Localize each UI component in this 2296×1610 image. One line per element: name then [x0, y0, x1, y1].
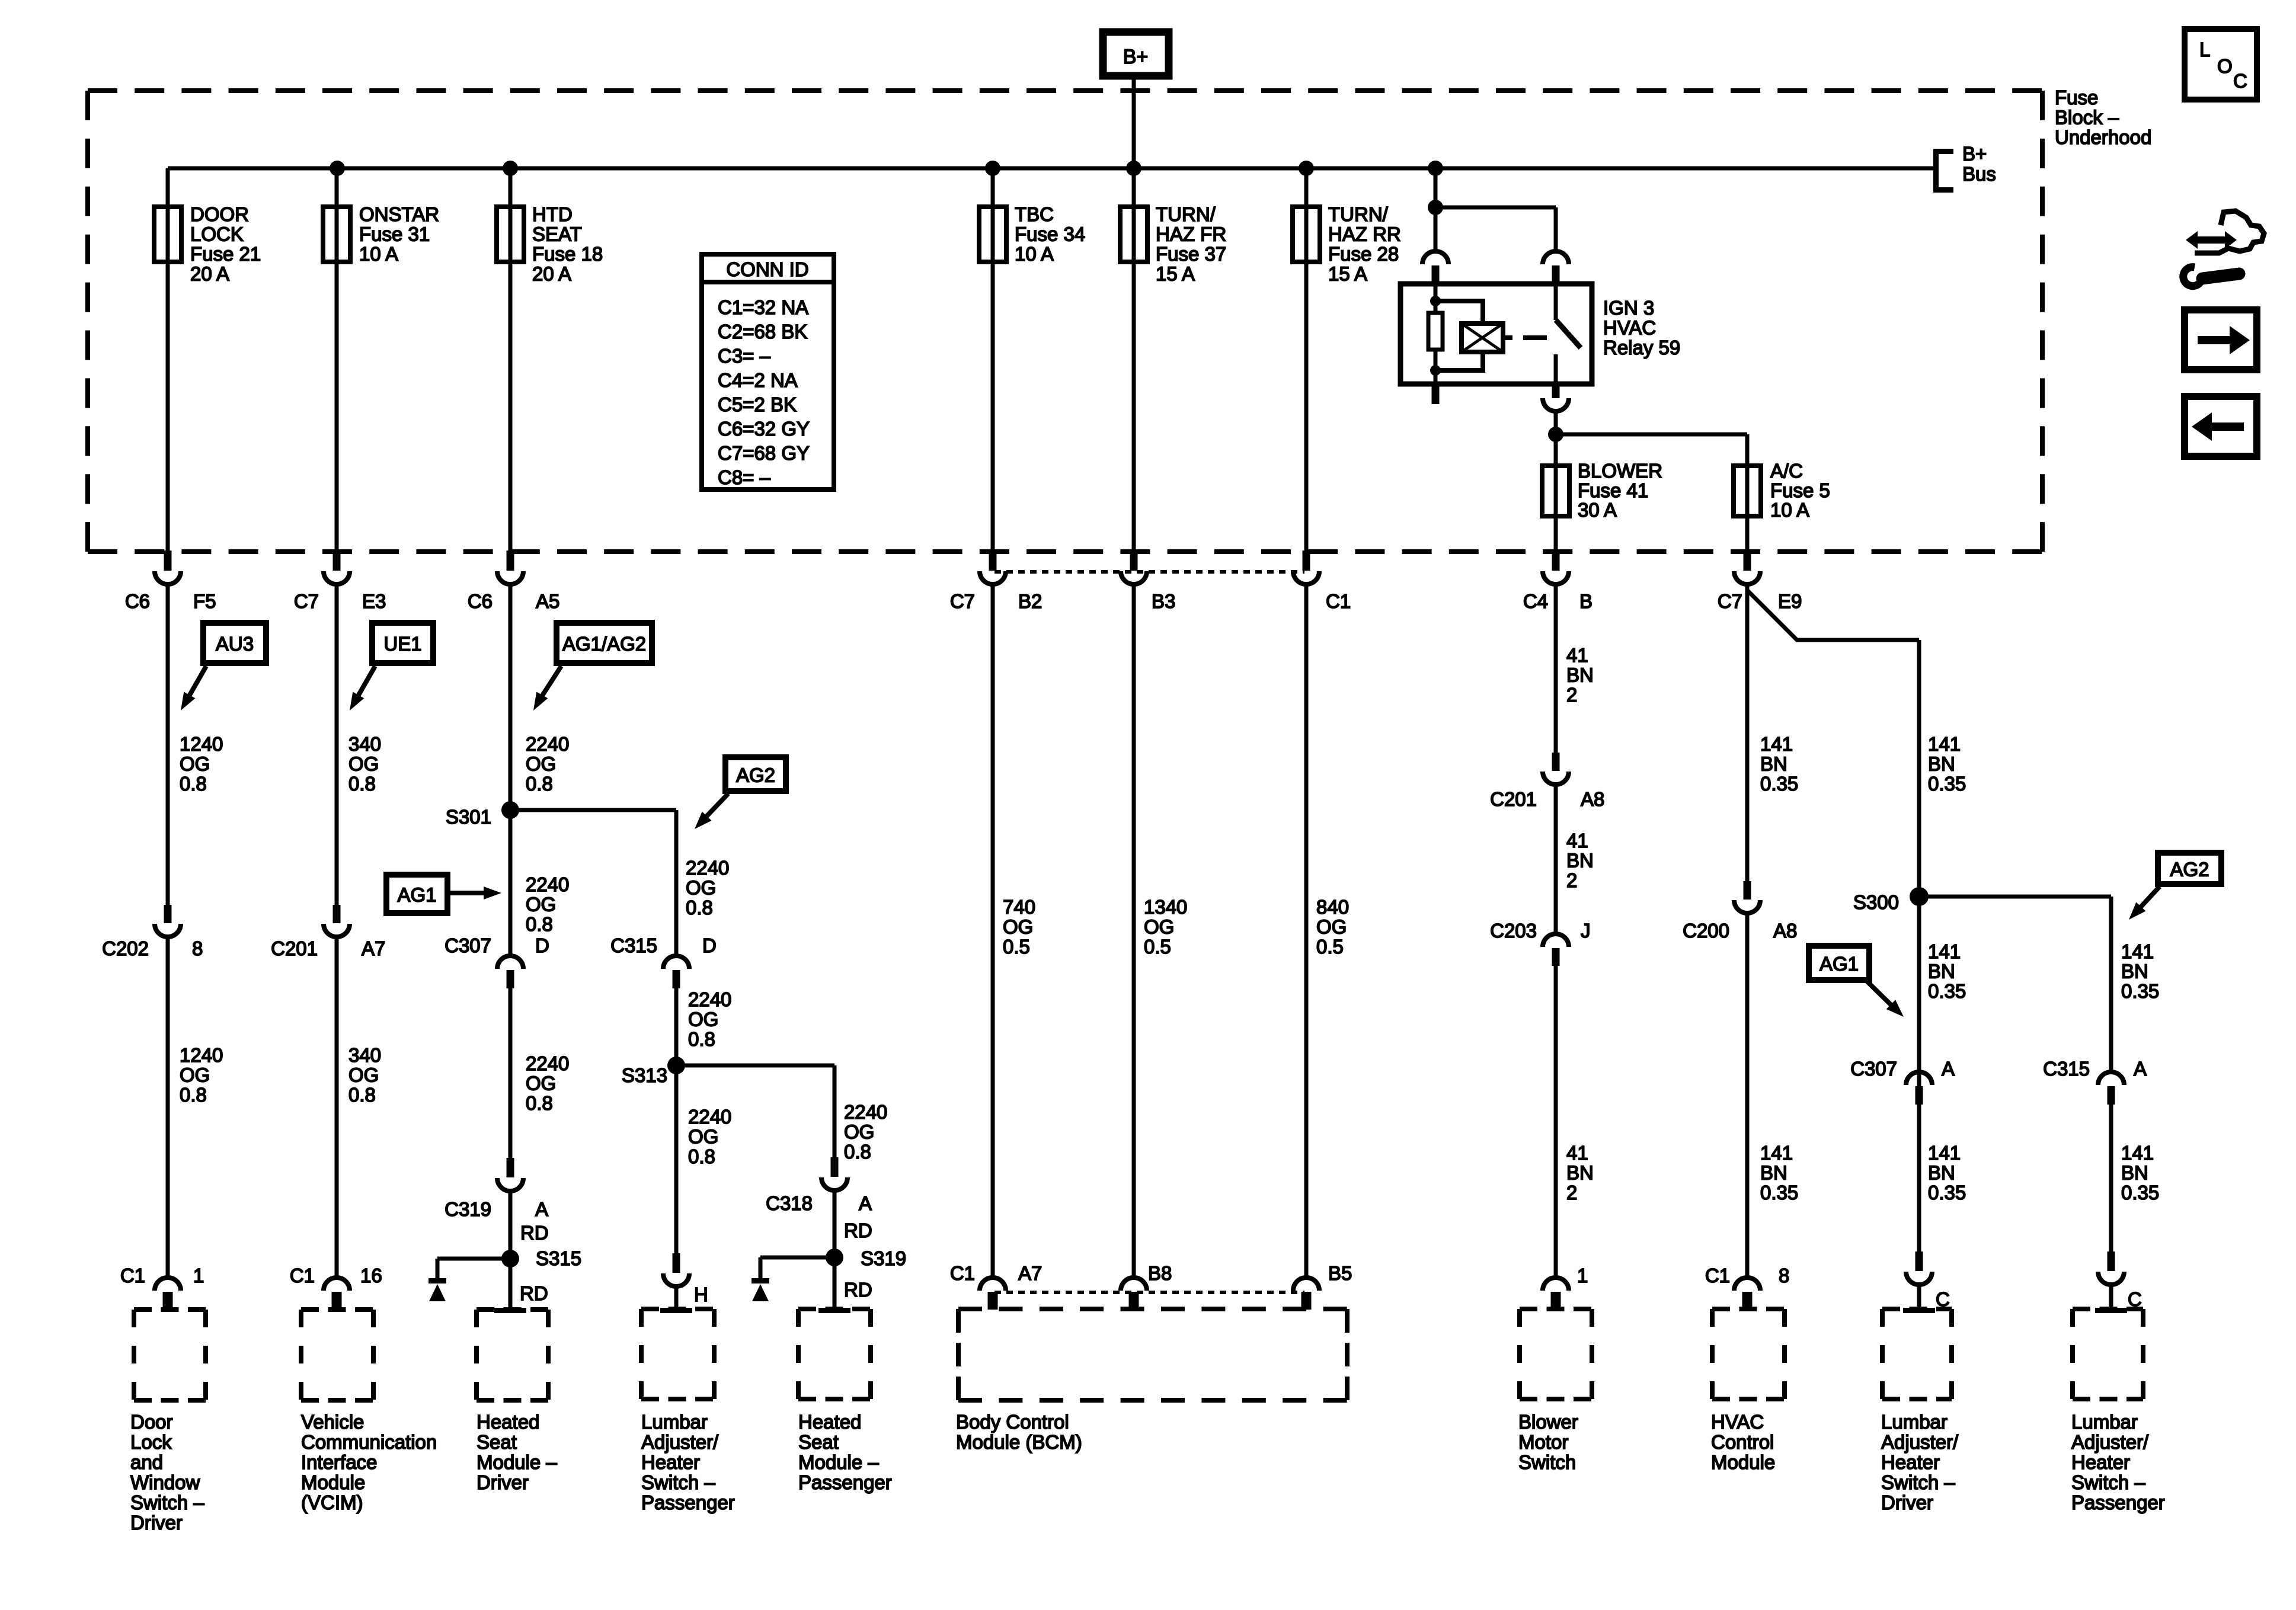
svg-text:C7: C7 — [294, 590, 319, 612]
svg-text:A: A — [2134, 1058, 2147, 1080]
svg-text:HAZ RR: HAZ RR — [1328, 223, 1401, 245]
svg-text:0.35: 0.35 — [1760, 1182, 1798, 1204]
svg-text:Module: Module — [301, 1471, 365, 1493]
svg-text:S301: S301 — [446, 806, 491, 828]
svg-text:Heater: Heater — [2071, 1451, 2130, 1473]
svg-text:BN: BN — [1760, 1162, 1787, 1184]
svg-text:C1: C1 — [290, 1265, 315, 1286]
svg-text:Fuse: Fuse — [2055, 87, 2098, 108]
svg-text:Fuse 41: Fuse 41 — [1578, 479, 1648, 501]
svg-text:Passenger: Passenger — [798, 1471, 892, 1493]
svg-text:IGN 3: IGN 3 — [1603, 297, 1654, 319]
svg-text:C307: C307 — [1850, 1058, 1897, 1080]
svg-text:Lumbar: Lumbar — [641, 1411, 708, 1433]
svg-text:30 A: 30 A — [1578, 499, 1617, 521]
svg-text:A5: A5 — [536, 590, 559, 612]
svg-text:A8: A8 — [1773, 920, 1797, 942]
svg-text:C7=68 GY: C7=68 GY — [718, 442, 810, 464]
svg-text:Window: Window — [130, 1471, 200, 1493]
svg-text:141: 141 — [1928, 1142, 1961, 1164]
svg-text:C1: C1 — [1326, 590, 1351, 612]
svg-text:C7: C7 — [950, 590, 975, 612]
svg-text:2240: 2240 — [526, 733, 569, 755]
svg-text:C8= –: C8= – — [718, 466, 771, 488]
svg-text:BN: BN — [2121, 961, 2148, 982]
svg-text:B2: B2 — [1018, 590, 1042, 612]
svg-text:41: 41 — [1566, 830, 1588, 852]
svg-text:OG: OG — [1003, 916, 1033, 938]
svg-text:RD: RD — [844, 1219, 872, 1241]
svg-text:C307: C307 — [445, 934, 491, 956]
svg-text:141: 141 — [2121, 1142, 2154, 1164]
svg-text:1340: 1340 — [1144, 896, 1187, 918]
svg-text:B8: B8 — [1148, 1262, 1172, 1284]
svg-text:0.8: 0.8 — [526, 1092, 553, 1114]
svg-text:BN: BN — [1760, 753, 1787, 775]
svg-text:E3: E3 — [362, 590, 386, 612]
svg-text:0.5: 0.5 — [1003, 936, 1030, 958]
svg-text:A7: A7 — [362, 937, 385, 959]
svg-text:Passenger: Passenger — [641, 1491, 735, 1513]
svg-text:2240: 2240 — [688, 988, 731, 1010]
svg-text:Module (BCM): Module (BCM) — [956, 1431, 1082, 1453]
svg-text:C7: C7 — [1718, 590, 1742, 612]
svg-text:Fuse 18: Fuse 18 — [532, 243, 603, 265]
svg-text:Adjuster/: Adjuster/ — [641, 1431, 719, 1453]
svg-text:2: 2 — [1566, 869, 1577, 891]
svg-text:Module: Module — [1711, 1451, 1775, 1473]
svg-text:10 A: 10 A — [1770, 499, 1809, 521]
svg-text:Control: Control — [1711, 1431, 1774, 1453]
svg-text:C202: C202 — [102, 937, 149, 959]
svg-text:AG1/AG2: AG1/AG2 — [562, 633, 646, 655]
svg-text:F5: F5 — [193, 590, 216, 612]
svg-text:SEAT: SEAT — [532, 223, 582, 245]
svg-text:C319: C319 — [445, 1198, 491, 1220]
svg-text:10 A: 10 A — [1015, 243, 1054, 265]
svg-text:20 A: 20 A — [532, 263, 571, 285]
svg-text:BN: BN — [1566, 1162, 1594, 1184]
svg-text:Motor: Motor — [1518, 1431, 1568, 1453]
svg-text:340: 340 — [348, 733, 381, 755]
svg-text:B+: B+ — [1123, 46, 1149, 68]
svg-text:OG: OG — [688, 1009, 718, 1030]
svg-text:C: C — [2233, 70, 2247, 92]
svg-text:Communication: Communication — [301, 1431, 437, 1453]
svg-text:Relay 59: Relay 59 — [1603, 337, 1680, 359]
svg-text:Adjuster/: Adjuster/ — [1881, 1431, 1959, 1453]
svg-text:UE1: UE1 — [383, 633, 421, 655]
svg-text:Block –: Block – — [2055, 107, 2119, 129]
svg-text:C4: C4 — [1523, 590, 1548, 612]
svg-text:Fuse 5: Fuse 5 — [1770, 479, 1830, 501]
svg-text:C6: C6 — [125, 590, 150, 612]
svg-text:41: 41 — [1566, 1142, 1588, 1164]
svg-text:BLOWER: BLOWER — [1578, 460, 1662, 482]
svg-text:S315: S315 — [536, 1247, 581, 1269]
svg-text:0.35: 0.35 — [1760, 773, 1798, 795]
svg-text:Switch –: Switch – — [1881, 1471, 1955, 1493]
svg-text:C315: C315 — [610, 934, 657, 956]
svg-text:C1: C1 — [120, 1265, 145, 1286]
svg-text:H: H — [694, 1283, 708, 1305]
svg-text:C4=2 NA: C4=2 NA — [718, 369, 798, 391]
svg-text:C201: C201 — [271, 937, 318, 959]
svg-text:Heater: Heater — [641, 1451, 700, 1473]
svg-text:Fuse 37: Fuse 37 — [1156, 243, 1226, 265]
svg-text:Body Control: Body Control — [956, 1411, 1069, 1433]
svg-text:Driver: Driver — [130, 1512, 183, 1534]
svg-text:RD: RD — [844, 1279, 872, 1301]
svg-text:Lumbar: Lumbar — [1881, 1411, 1948, 1433]
svg-text:S313: S313 — [622, 1064, 667, 1086]
svg-text:B+: B+ — [1962, 143, 1987, 165]
svg-text:OG: OG — [1144, 916, 1174, 938]
svg-text:141: 141 — [1928, 733, 1961, 755]
svg-text:Fuse 21: Fuse 21 — [190, 243, 261, 265]
svg-text:Interface: Interface — [301, 1451, 377, 1473]
svg-text:OG: OG — [526, 894, 556, 916]
svg-text:1240: 1240 — [180, 1044, 223, 1066]
svg-text:1240: 1240 — [180, 733, 223, 755]
svg-text:OG: OG — [180, 753, 210, 775]
svg-text:Blower: Blower — [1518, 1411, 1578, 1433]
svg-text:740: 740 — [1003, 896, 1035, 918]
svg-text:B5: B5 — [1328, 1262, 1352, 1284]
svg-text:Seat: Seat — [477, 1431, 517, 1453]
svg-text:(VCIM): (VCIM) — [301, 1491, 363, 1513]
svg-text:1: 1 — [193, 1265, 204, 1286]
svg-text:OG: OG — [686, 877, 716, 899]
svg-text:0.8: 0.8 — [348, 773, 376, 795]
svg-text:Heater: Heater — [1881, 1451, 1940, 1473]
svg-text:B: B — [1579, 590, 1593, 612]
svg-text:Seat: Seat — [798, 1431, 839, 1453]
svg-text:141: 141 — [1760, 733, 1793, 755]
svg-text:Heated: Heated — [477, 1411, 539, 1433]
svg-text:A8: A8 — [1581, 788, 1604, 810]
svg-text:HTD: HTD — [532, 203, 573, 225]
svg-text:HAZ FR: HAZ FR — [1156, 223, 1226, 245]
svg-text:AG1: AG1 — [1819, 953, 1859, 975]
svg-text:2: 2 — [1566, 1182, 1577, 1204]
svg-text:B3: B3 — [1152, 590, 1175, 612]
svg-text:0.35: 0.35 — [2121, 980, 2159, 1002]
svg-text:AU3: AU3 — [216, 633, 254, 655]
svg-text:D: D — [535, 934, 549, 956]
svg-text:Switch –: Switch – — [641, 1471, 715, 1493]
svg-text:8: 8 — [1779, 1265, 1789, 1286]
svg-text:Fuse 34: Fuse 34 — [1015, 223, 1085, 245]
svg-text:RD: RD — [520, 1222, 549, 1244]
svg-text:C3= –: C3= – — [718, 345, 771, 367]
svg-text:A/C: A/C — [1770, 460, 1803, 482]
svg-text:AG2: AG2 — [736, 764, 775, 786]
svg-text:J: J — [1581, 920, 1591, 942]
svg-text:0.8: 0.8 — [526, 913, 553, 935]
svg-text:Switch: Switch — [1518, 1451, 1576, 1473]
svg-text:TURN/: TURN/ — [1156, 203, 1216, 225]
svg-text:C201: C201 — [1490, 788, 1537, 810]
svg-text:0.8: 0.8 — [180, 773, 207, 795]
svg-text:0.35: 0.35 — [1928, 773, 1966, 795]
svg-text:1: 1 — [1577, 1265, 1588, 1286]
svg-text:A: A — [859, 1192, 872, 1214]
svg-text:BN: BN — [2121, 1162, 2148, 1184]
svg-text:0.35: 0.35 — [1928, 1182, 1966, 1204]
svg-text:LOCK: LOCK — [190, 223, 244, 245]
svg-text:C6: C6 — [468, 590, 493, 612]
svg-text:Driver: Driver — [1881, 1491, 1933, 1513]
svg-text:HVAC: HVAC — [1603, 317, 1656, 339]
svg-text:OG: OG — [844, 1121, 874, 1143]
svg-text:A: A — [1942, 1058, 1955, 1080]
svg-text:Driver: Driver — [477, 1471, 529, 1493]
svg-text:BN: BN — [1566, 850, 1594, 872]
svg-text:Lock: Lock — [130, 1431, 172, 1453]
svg-text:C6=32 GY: C6=32 GY — [718, 418, 810, 440]
svg-text:CONN ID: CONN ID — [726, 258, 808, 280]
svg-text:S300: S300 — [1853, 891, 1899, 913]
svg-text:C315: C315 — [2043, 1058, 2090, 1080]
svg-text:E9: E9 — [1778, 590, 1802, 612]
svg-text:Fuse 31: Fuse 31 — [359, 223, 430, 245]
svg-text:and: and — [130, 1451, 163, 1473]
svg-text:Lumbar: Lumbar — [2071, 1411, 2138, 1433]
svg-text:0.8: 0.8 — [844, 1141, 871, 1163]
svg-text:16: 16 — [360, 1265, 382, 1286]
svg-text:Adjuster/: Adjuster/ — [2071, 1431, 2149, 1453]
svg-text:141: 141 — [2121, 940, 2154, 962]
svg-text:Vehicle: Vehicle — [301, 1411, 364, 1433]
svg-text:2240: 2240 — [688, 1106, 731, 1128]
svg-text:BN: BN — [1566, 664, 1594, 686]
svg-text:0.35: 0.35 — [1928, 980, 1966, 1002]
svg-text:AG2: AG2 — [2170, 859, 2209, 881]
svg-text:TBC: TBC — [1015, 203, 1054, 225]
svg-text:HVAC: HVAC — [1711, 1411, 1764, 1433]
svg-text:15 A: 15 A — [1328, 263, 1367, 285]
svg-text:A: A — [535, 1198, 548, 1220]
svg-text:2240: 2240 — [526, 873, 569, 895]
svg-text:10 A: 10 A — [359, 243, 398, 265]
svg-text:TURN/: TURN/ — [1328, 203, 1389, 225]
svg-text:0.8: 0.8 — [348, 1084, 376, 1106]
svg-text:RD: RD — [520, 1282, 548, 1304]
svg-text:Module –: Module – — [798, 1451, 879, 1473]
svg-text:OG: OG — [526, 753, 556, 775]
svg-text:Fuse 28: Fuse 28 — [1328, 243, 1399, 265]
svg-text:0.8: 0.8 — [686, 897, 713, 918]
svg-text:C1: C1 — [950, 1262, 975, 1284]
svg-text:L: L — [2199, 39, 2210, 60]
svg-text:0.8: 0.8 — [180, 1084, 207, 1106]
svg-text:2240: 2240 — [526, 1052, 569, 1074]
svg-text:41: 41 — [1566, 644, 1588, 666]
svg-text:0.5: 0.5 — [1316, 936, 1344, 958]
svg-text:0.5: 0.5 — [1144, 936, 1171, 958]
svg-text:0.8: 0.8 — [688, 1145, 715, 1167]
svg-text:Door: Door — [130, 1411, 173, 1433]
svg-text:DOOR: DOOR — [190, 203, 249, 225]
svg-text:0.35: 0.35 — [2121, 1182, 2159, 1204]
svg-text:0.8: 0.8 — [526, 773, 553, 795]
svg-text:OG: OG — [1316, 916, 1347, 938]
svg-text:141: 141 — [1928, 940, 1961, 962]
svg-text:Switch –: Switch – — [2071, 1471, 2145, 1493]
svg-text:141: 141 — [1760, 1142, 1793, 1164]
svg-text:OG: OG — [180, 1064, 210, 1086]
svg-text:OG: OG — [348, 753, 379, 775]
svg-text:S319: S319 — [861, 1247, 906, 1269]
svg-text:C318: C318 — [766, 1192, 813, 1214]
svg-text:2: 2 — [1566, 684, 1577, 706]
svg-text:OG: OG — [526, 1073, 556, 1094]
svg-text:0.8: 0.8 — [688, 1028, 715, 1050]
svg-text:ONSTAR: ONSTAR — [359, 203, 439, 225]
svg-text:Switch –: Switch – — [130, 1491, 204, 1513]
svg-text:BN: BN — [1928, 1162, 1955, 1184]
svg-text:BN: BN — [1928, 753, 1955, 775]
svg-text:Module –: Module – — [477, 1451, 557, 1473]
svg-text:O: O — [2217, 55, 2233, 77]
svg-text:840: 840 — [1316, 896, 1349, 918]
svg-text:20 A: 20 A — [190, 263, 229, 285]
svg-text:OG: OG — [348, 1064, 379, 1086]
svg-text:C200: C200 — [1683, 920, 1729, 942]
svg-text:BN: BN — [1928, 961, 1955, 982]
svg-text:Bus: Bus — [1962, 163, 1996, 185]
svg-text:AG1: AG1 — [397, 884, 436, 906]
svg-text:C1: C1 — [1705, 1265, 1730, 1286]
svg-text:2240: 2240 — [686, 857, 729, 879]
svg-text:2240: 2240 — [844, 1101, 887, 1123]
svg-text:15 A: 15 A — [1156, 263, 1195, 285]
svg-text:OG: OG — [688, 1126, 718, 1148]
svg-text:Passenger: Passenger — [2071, 1491, 2165, 1513]
svg-text:C203: C203 — [1490, 920, 1537, 942]
svg-text:C5=2 BK: C5=2 BK — [718, 393, 797, 415]
svg-text:A7: A7 — [1018, 1262, 1042, 1284]
svg-text:C1=32 NA: C1=32 NA — [718, 296, 808, 318]
svg-text:Heated: Heated — [798, 1411, 861, 1433]
svg-text:Underhood: Underhood — [2055, 126, 2151, 148]
svg-text:340: 340 — [348, 1044, 381, 1066]
svg-text:D: D — [702, 934, 717, 956]
svg-text:8: 8 — [192, 937, 203, 959]
svg-text:C2=68 BK: C2=68 BK — [718, 321, 807, 343]
